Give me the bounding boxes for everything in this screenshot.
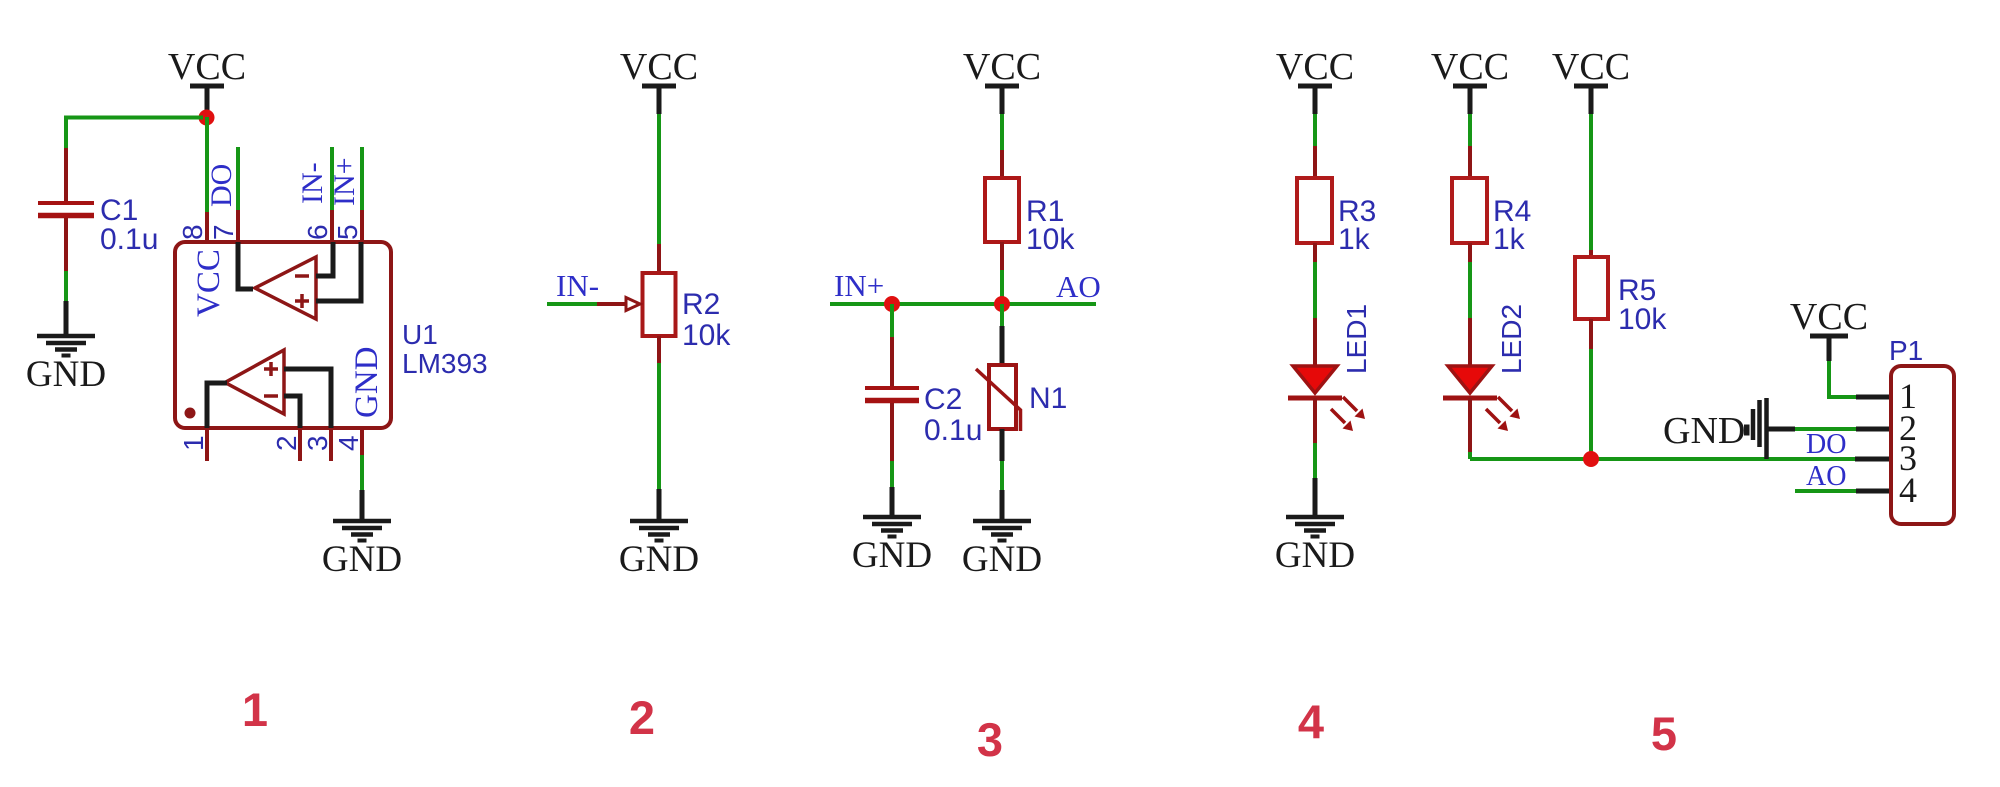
wire VCC to R3 <box>1313 114 1317 178</box>
label R3 1k <box>1338 195 1376 256</box>
svg-text:AO: AO <box>1056 269 1101 304</box>
svg-text:4: 4 <box>1899 470 1917 510</box>
svg-text:DO: DO <box>205 164 238 207</box>
svg-text:1: 1 <box>178 435 209 451</box>
svg-text:IN+: IN+ <box>328 157 361 206</box>
wire DO stub into P1 pin 3 <box>1855 457 1891 462</box>
ground GND (C1) <box>26 336 106 395</box>
svg-text:0.1u: 0.1u <box>100 223 158 256</box>
svg-text:GND: GND <box>349 347 385 419</box>
power VCC symbol (LED2 branch) <box>1431 46 1509 114</box>
op-amp U1 LM393 body <box>175 242 391 428</box>
power VCC symbol (P1) <box>1790 296 1868 361</box>
wire pin 5 IN+ stub <box>360 147 364 242</box>
wire LED2 to DO net <box>1468 398 1472 459</box>
wire bus to N1 <box>1000 304 1004 365</box>
node junction C2 <box>884 296 900 312</box>
wire R1 to bus <box>1000 242 1004 304</box>
label C2 0.1u <box>924 383 982 447</box>
svg-text:1k: 1k <box>1493 223 1526 256</box>
wire op-amp B output to pin 1 <box>207 383 227 428</box>
svg-text:C2: C2 <box>924 383 962 416</box>
LED LED1 <box>1288 366 1365 431</box>
wire pin 3 stub <box>329 428 333 461</box>
svg-text:3: 3 <box>977 713 1003 766</box>
svg-text:GND: GND <box>1663 410 1745 452</box>
svg-text:2: 2 <box>271 435 302 451</box>
svg-text:VCC: VCC <box>1276 46 1354 88</box>
svg-text:GND: GND <box>1275 535 1355 576</box>
svg-text:4: 4 <box>333 435 364 451</box>
ground GND (U1 pin 4) <box>322 521 402 580</box>
label R4 1k <box>1493 195 1531 256</box>
label R1 10k <box>1026 195 1075 256</box>
svg-text:P1: P1 <box>1889 335 1923 366</box>
svg-text:VCC: VCC <box>963 46 1041 88</box>
svg-text:5: 5 <box>1651 707 1677 760</box>
svg-text:1k: 1k <box>1338 223 1371 256</box>
svg-text:R2: R2 <box>682 288 720 321</box>
svg-text:GND: GND <box>619 539 699 580</box>
ground GND (LED1) <box>1275 517 1355 576</box>
ground GND (R2) <box>619 521 699 580</box>
wire N1 to ground <box>1000 429 1005 521</box>
potentiometer R2 body <box>643 273 676 336</box>
power VCC symbol (section 3) <box>963 46 1041 114</box>
svg-text:4: 4 <box>1298 695 1324 748</box>
power VCC symbol (LED1 branch) <box>1276 46 1354 114</box>
wire VCC to R2 <box>657 114 661 273</box>
connector P1 body <box>1891 366 1954 524</box>
LED LED2 <box>1443 366 1520 431</box>
svg-text:VCC: VCC <box>191 249 227 317</box>
wire op-amp B non-inverting input to pin 3 <box>284 369 331 428</box>
wire R2 to ground <box>657 336 661 521</box>
svg-text:IN-: IN- <box>556 268 599 303</box>
wire pin 2 stub <box>298 428 302 461</box>
node junction DO <box>1583 451 1599 467</box>
wire op-amp A inverting input to pin 6 <box>316 242 333 276</box>
op-amp comparator B (bottom) <box>225 350 284 414</box>
svg-text:N1: N1 <box>1029 382 1067 415</box>
wire op-amp A output to pin 7 <box>238 242 253 289</box>
wire DO net (LED2 to P1 pin 3) <box>1470 457 1855 461</box>
svg-text:10k: 10k <box>1618 303 1667 336</box>
svg-text:10k: 10k <box>1026 223 1075 256</box>
resistor R3 <box>1297 178 1332 243</box>
resistor R4 <box>1452 178 1487 243</box>
wire pin 6 IN- stub <box>330 147 334 242</box>
wire GND to P1 pin 2 <box>1766 427 1891 432</box>
svg-text:LM393: LM393 <box>402 348 488 379</box>
svg-text:GND: GND <box>322 539 402 580</box>
wire AO to P1 pin 4 <box>1795 489 1891 493</box>
svg-text:DO: DO <box>1806 429 1846 460</box>
ground GND (C2) <box>852 517 932 576</box>
svg-text:GND: GND <box>962 539 1042 580</box>
svg-text:VCC: VCC <box>1552 46 1630 88</box>
svg-text:IN+: IN+ <box>834 268 884 303</box>
wire pin 7 DO stub <box>236 147 240 242</box>
node junction N1 <box>994 296 1010 312</box>
wire R4 to LED2 <box>1468 243 1472 366</box>
svg-text:GND: GND <box>852 535 932 576</box>
capacitor C1 <box>38 117 94 336</box>
wire VCC to R5 <box>1589 114 1593 257</box>
svg-text:GND: GND <box>26 354 106 395</box>
svg-text:AO: AO <box>1806 461 1846 492</box>
svg-text:0.1u: 0.1u <box>924 414 982 447</box>
svg-text:2: 2 <box>629 691 655 744</box>
svg-text:3: 3 <box>302 435 333 451</box>
svg-text:LED1: LED1 <box>1341 304 1372 374</box>
wire VCC to R1 <box>1000 114 1004 178</box>
power VCC symbol (section 2) <box>620 46 698 114</box>
svg-text:LED2: LED2 <box>1496 304 1527 374</box>
label R2 10k <box>682 288 731 352</box>
svg-text:6: 6 <box>302 224 333 240</box>
svg-text:10k: 10k <box>682 319 731 352</box>
wire IN+ / AO bus <box>830 302 1096 306</box>
resistor R5 <box>1575 257 1608 319</box>
svg-text:VCC: VCC <box>1790 296 1868 338</box>
svg-text:VCC: VCC <box>620 46 698 88</box>
wire VCC to P1 pin 1 <box>1829 361 1891 397</box>
wire op-amp A non-inverting input to pin 5 <box>316 242 361 301</box>
wire pin 1 stub <box>205 428 209 461</box>
power VCC symbol (section 1) <box>168 46 246 114</box>
thermistor N1 <box>976 365 1021 431</box>
wire op-amp B inverting input to pin 2 <box>284 396 300 428</box>
wire pin 4 to ground <box>360 428 364 521</box>
wire R3 to LED1 <box>1313 243 1317 366</box>
svg-text:IN-: IN- <box>296 162 329 204</box>
ground GND (N1) <box>962 521 1042 580</box>
capacitor C2 <box>865 304 919 517</box>
svg-text:U1: U1 <box>402 319 438 350</box>
R2 wiper arrow <box>626 298 640 311</box>
svg-text:7: 7 <box>208 224 239 240</box>
label R5 10k <box>1618 274 1667 336</box>
svg-text:1: 1 <box>242 683 268 736</box>
ground GND (P1 pin 2, rotated) <box>1663 398 1767 459</box>
svg-text:5: 5 <box>332 224 363 240</box>
power VCC symbol (R5 branch) <box>1552 46 1630 114</box>
svg-text:8: 8 <box>177 224 208 240</box>
wire IN- to R2 wiper <box>547 302 626 306</box>
pin 1 indicator dot <box>185 408 196 419</box>
wire VCC to C1 <box>64 116 203 120</box>
svg-text:VCC: VCC <box>1431 46 1509 88</box>
wire VCC to U1 pin 8 <box>205 117 209 243</box>
label C1 0.1u <box>100 194 158 256</box>
node VCC junction <box>199 110 215 126</box>
resistor R1 <box>985 178 1019 242</box>
op-amp comparator A (top) <box>255 257 316 319</box>
wire LED1 to ground <box>1313 398 1317 517</box>
wire VCC to R4 <box>1468 114 1472 178</box>
svg-text:VCC: VCC <box>168 46 246 88</box>
wire R5 to DO net <box>1589 319 1593 459</box>
